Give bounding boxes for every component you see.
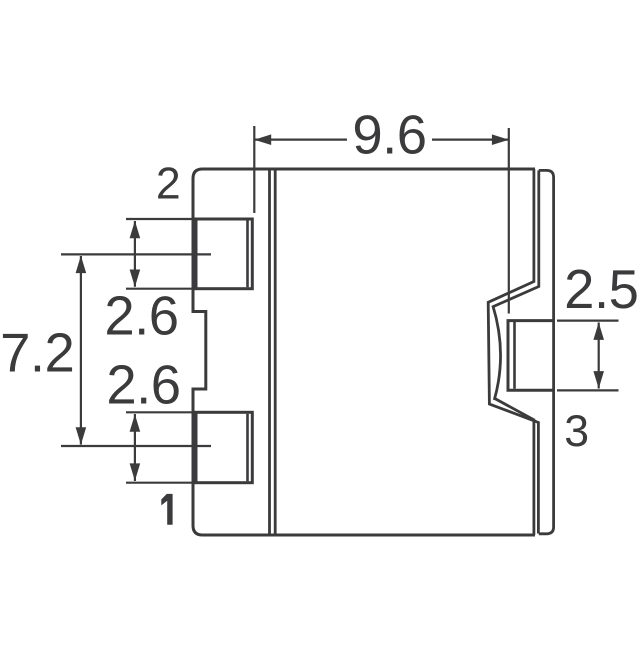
- pin label 1: [161, 494, 172, 525]
- terminal tab pin 2: [196, 219, 252, 289]
- svg-text:7.2: 7.2: [0, 322, 74, 383]
- dimension 2.6 lower arrow line: [134, 414, 136, 481]
- svg-text:3: 3: [564, 407, 589, 456]
- dimension 9.6 extension line left: [253, 126, 255, 213]
- arrowhead 2.6 lower bottom: [130, 463, 141, 481]
- dimension 2.6 lower extension top: [126, 411, 196, 413]
- arrowhead 2.5 top: [593, 322, 604, 340]
- arrowhead 2.6 lower top: [130, 414, 141, 432]
- dimension 7.2 extension line bottom: [61, 445, 211, 447]
- dimension 2.5 arrow line: [598, 323, 600, 389]
- svg-text:2: 2: [156, 160, 181, 209]
- right flange left edge upper with slope: [492, 170, 539, 307]
- dimension 2.6 upper arrow line: [134, 221, 136, 287]
- svg-text:9.6: 9.6: [352, 105, 426, 166]
- arrowhead 2.5 bottom: [593, 371, 604, 389]
- terminal tab pin 1: [196, 412, 252, 482]
- arrowhead 2.6 upper bottom: [130, 270, 141, 288]
- arrowhead 9.6 left: [254, 134, 271, 145]
- arrowhead 9.6 right: [492, 134, 509, 145]
- dimension 9.6 extension line right: [508, 128, 510, 314]
- arrowhead 2.6 upper top: [130, 221, 141, 239]
- arrowhead 7.2 top: [76, 256, 87, 274]
- lead bump contact arc: [493, 306, 501, 401]
- body right edge with lead bump outer profile: [488, 169, 538, 534]
- dimension 2.6 lower extension bottom: [126, 482, 196, 484]
- arrowhead 7.2 bottom: [76, 427, 87, 445]
- dimension 9.6 line left segment: [255, 139, 348, 141]
- svg-text:2.5: 2.5: [564, 259, 638, 320]
- dimension 2.5 extension top: [557, 320, 619, 322]
- dimension 2.6 upper extension top: [126, 218, 196, 220]
- right inner line lower slope: [495, 399, 534, 536]
- svg-text:2.6: 2.6: [104, 285, 178, 346]
- dimension 7.2 extension line top: [61, 253, 211, 255]
- terminal tab pin 3: [508, 321, 554, 391]
- dimension 9.6 line right segment: [432, 139, 509, 141]
- body outline (left flange silhouette + top and bottom edges): [193, 169, 535, 535]
- dimension 2.5 extension bottom: [557, 389, 619, 391]
- svg-text:2.6: 2.6: [106, 355, 180, 416]
- body left inner double line 2: [274, 169, 277, 535]
- dimension 7.2 arrow line: [80, 256, 82, 445]
- dimension 2.6 upper extension bottom: [126, 288, 196, 290]
- body left inner double line 1: [268, 169, 271, 535]
- right flange outline: [539, 170, 554, 533]
